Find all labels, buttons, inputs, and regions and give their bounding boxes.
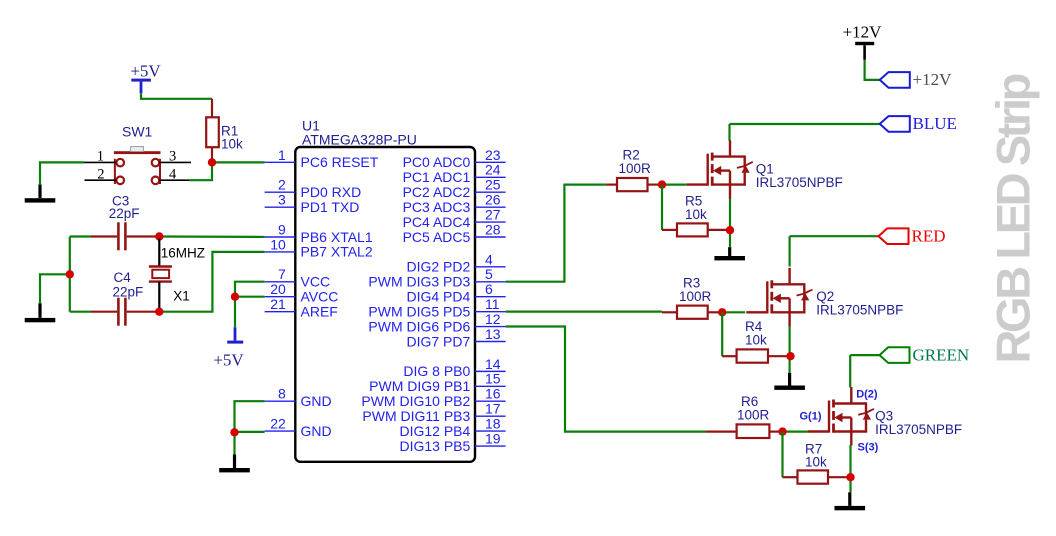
resistor R5 left lead [662, 229, 677, 231]
wire GREEN net [850, 354, 879, 356]
svg-text:GND: GND [301, 423, 332, 439]
svg-text:10k: 10k [805, 455, 827, 470]
IC U1 pin 11 (PWM DIG5 PD5) [368, 296, 505, 319]
IC U1 pin 9 (PB6 XTAL1) [265, 221, 373, 244]
junction node Q2 source/R4 [786, 352, 794, 360]
resistor R1 body [206, 117, 219, 147]
svg-text:4: 4 [485, 251, 493, 267]
svg-text:16MHZ: 16MHZ [161, 245, 205, 260]
junction node Q1 source/R5 [726, 226, 734, 234]
junction node VCC/AVCC [231, 293, 239, 301]
IC U1 pin 14 (DIG 8 PB0) [403, 356, 505, 379]
IC U1 pin 1 (PC6 RESET) [265, 147, 379, 170]
svg-text:RGB LED Strip: RGB LED Strip [987, 74, 1040, 363]
capacitor C3 left lead [91, 235, 117, 237]
IC U1 pin 20 (AVCC) [265, 281, 339, 304]
IC U1 pin 5 (PWM DIG3 PD3) [368, 266, 505, 289]
power symbol +5V (below VCC) [213, 327, 244, 369]
net flag GREEN [880, 347, 910, 363]
svg-text:24: 24 [485, 162, 501, 178]
svg-text:D(2): D(2) [856, 388, 878, 400]
ground (switch) [25, 185, 56, 203]
svg-text:6: 6 [485, 281, 493, 297]
svg-text:PC3 ADC3: PC3 ADC3 [403, 199, 471, 215]
svg-text:2: 2 [278, 177, 286, 193]
junction node R1/SW1/pin1 [208, 158, 216, 166]
capacitor C4 right lead [127, 311, 160, 313]
wire C4 junction to IC pin 10 [159, 252, 264, 312]
svg-text:PWM DIG6 PD6: PWM DIG6 PD6 [368, 318, 470, 334]
svg-text:RED: RED [912, 226, 946, 245]
wire Q1 source down [729, 199, 731, 248]
crystal X1 top lead [158, 239, 160, 267]
wire R4 rail [721, 312, 723, 356]
svg-text:DIG7 PD7: DIG7 PD7 [406, 333, 470, 349]
IC U1 pin 18 (DIG12 PB4) [399, 415, 505, 438]
IC U1 pin 6 (DIG4 PD4) [406, 281, 505, 304]
svg-text:23: 23 [485, 147, 501, 163]
svg-text:DIG12 PB4: DIG12 PB4 [399, 423, 470, 439]
wire R7 rail [781, 432, 783, 478]
capacitor C4 left lead [91, 311, 117, 313]
IC U1 pin 4 (DIG2 PD2) [406, 251, 505, 274]
wire R3 junction to Q2 gate [722, 311, 745, 313]
wire Q2 drain up [788, 236, 790, 266]
svg-text:27: 27 [485, 206, 501, 222]
IC U1 pin 25 (PC2 ADC2) [403, 177, 506, 200]
resistor R2 body [617, 178, 648, 191]
svg-text:DIG13 PB5: DIG13 PB5 [399, 438, 470, 454]
wire left to C4 [70, 311, 91, 313]
svg-text:+12V: +12V [913, 70, 953, 89]
wire Q3 drain up [849, 355, 851, 387]
junction node XTAL2 [155, 308, 163, 316]
ground (crystal) [25, 303, 56, 322]
svg-text:18: 18 [485, 415, 501, 431]
svg-text:IRL3705NPBF: IRL3705NPBF [875, 422, 962, 437]
resistor R7 body [798, 470, 829, 483]
svg-text:PWM DIG9 PB1: PWM DIG9 PB1 [369, 378, 470, 394]
transistor Q1 IRL3705NPBF [687, 140, 753, 199]
wire BLUE net [730, 123, 880, 125]
wire Q1 drain up [728, 124, 730, 141]
IC U1 pin 10 (PB7 XTAL2) [265, 236, 373, 259]
svg-text:GND: GND [301, 393, 332, 409]
svg-text:PC1 ADC1: PC1 ADC1 [403, 169, 471, 185]
switch SW1 body [114, 147, 161, 185]
svg-text:+5V: +5V [130, 62, 161, 81]
transistor Q3 IRL3705NPBF [808, 387, 874, 446]
svg-text:PC0 ADC0: PC0 ADC0 [403, 154, 471, 170]
svg-text:22pF: 22pF [113, 285, 144, 300]
svg-text:IRL3705NPBF: IRL3705NPBF [756, 175, 843, 190]
svg-text:PB7 XTAL2: PB7 XTAL2 [301, 244, 373, 260]
IC U1 pin 13 (DIG7 PD7) [406, 326, 505, 349]
wire IC pin 7 VCC [235, 282, 265, 297]
svg-text:+12V: +12V [843, 22, 883, 41]
svg-text:11: 11 [485, 296, 500, 312]
IC U1 pin 21 (AREF) [265, 296, 338, 319]
power symbol +12V [843, 22, 883, 59]
resistor R7 right lead [828, 476, 851, 478]
wire R5 rail [661, 185, 663, 230]
IC U1 body [295, 147, 475, 462]
power symbol +5V (top left) [130, 62, 161, 94]
svg-text:10k: 10k [221, 137, 243, 152]
IC U1 pin 2 (PD0 RXD) [265, 177, 362, 200]
svg-text:G(1): G(1) [800, 411, 822, 423]
svg-text:PD1 TXD: PD1 TXD [301, 199, 360, 215]
svg-text:22pF: 22pF [109, 206, 140, 221]
svg-text:IRL3705NPBF: IRL3705NPBF [816, 303, 903, 318]
net flag +12V [880, 72, 910, 88]
wire IC pin 22 GND [235, 431, 265, 433]
svg-text:26: 26 [485, 192, 501, 208]
resistor R2 right lead [648, 184, 663, 186]
crystal X1 bottom lead [158, 282, 160, 312]
svg-text:C4: C4 [114, 270, 132, 285]
wire +12V to flag [865, 60, 880, 80]
IC U1 pin 24 (PC1 ADC1) [403, 162, 506, 185]
ground (Q2) [774, 373, 805, 390]
IC U1 pin 16 (PWM DIG10 PB2) [361, 386, 505, 409]
svg-text:21: 21 [270, 296, 286, 312]
IC U1 pin 8 (GND) [265, 386, 332, 409]
svg-text:AVCC: AVCC [301, 289, 339, 305]
svg-text:DIG2 PD2: DIG2 PD2 [406, 259, 470, 275]
junction node Q1 gate [658, 180, 666, 188]
IC U1 pin 28 (PC5 ADC5) [403, 221, 506, 244]
wire R6 junction to Q3 gate [783, 431, 809, 433]
svg-text:3: 3 [278, 192, 286, 208]
svg-text:X1: X1 [173, 289, 190, 304]
resistor R2 left lead [606, 184, 617, 186]
svg-text:PC2 ADC2: PC2 ADC2 [403, 184, 471, 200]
wire IC pin 8 GND [235, 401, 265, 432]
resistor R3 right lead [708, 311, 723, 313]
svg-text:7: 7 [278, 266, 286, 282]
svg-text:13: 13 [485, 326, 501, 342]
wire IC pin 5 to R2 [506, 185, 607, 282]
wire +5V rail down [234, 297, 236, 328]
svg-text:PWM DIG5 PD5: PWM DIG5 PD5 [368, 303, 470, 319]
IC U1 pin 26 (PC3 ADC3) [403, 192, 506, 215]
svg-text:16: 16 [485, 386, 501, 402]
IC U1 pin 17 (PWM DIG11 PB3) [362, 401, 505, 424]
svg-text:PWM DIG3 PD3: PWM DIG3 PD3 [368, 274, 470, 290]
svg-text:10k: 10k [745, 333, 767, 348]
svg-text:20: 20 [270, 281, 286, 297]
svg-text:28: 28 [485, 221, 501, 237]
svg-text:+5V: +5V [213, 351, 244, 370]
svg-text:PC4 ADC4: PC4 ADC4 [403, 214, 471, 230]
svg-text:PC5 ADC5: PC5 ADC5 [403, 229, 471, 245]
switch SW1 pin 4 lead [159, 179, 189, 181]
capacitor C3 right lead [127, 235, 160, 237]
resistor R1 bottom lead [211, 147, 213, 162]
svg-text:25: 25 [485, 177, 501, 193]
svg-text:BLUE: BLUE [913, 114, 957, 133]
svg-text:DIG 8 PB0: DIG 8 PB0 [403, 363, 470, 379]
junction node Q3 source/R7 [846, 473, 854, 481]
resistor R3 left lead [662, 311, 677, 313]
wire rail to ground stub [40, 274, 70, 303]
junction node crystal rail [66, 270, 74, 278]
svg-text:GREEN: GREEN [913, 345, 970, 364]
IC U1 pin 27 (PC4 ADC4) [403, 206, 506, 229]
svg-text:VCC: VCC [301, 274, 331, 290]
wire IC pin 20 AVCC [235, 296, 265, 298]
junction node Q2 gate [718, 308, 726, 316]
capacitor C3 plates [118, 222, 125, 250]
ground (Q1) [714, 247, 745, 260]
ground (Q3) [835, 492, 866, 510]
IC U1 pin 3 (PD1 TXD) [265, 192, 360, 215]
resistor R3 body [677, 306, 708, 319]
svg-text:DIG4 PD4: DIG4 PD4 [406, 289, 470, 305]
svg-text:100R: 100R [619, 161, 652, 176]
svg-text:1: 1 [278, 147, 286, 163]
wire left to C3 [70, 235, 91, 237]
svg-text:PC6 RESET: PC6 RESET [301, 154, 379, 170]
switch SW1 pin 3 lead [159, 161, 191, 163]
switch SW1 pin 2 lead [85, 179, 117, 181]
resistor R1 top lead [211, 99, 213, 118]
svg-text:100R: 100R [737, 408, 770, 423]
svg-text:AREF: AREF [301, 303, 338, 319]
resistor R4 left lead [722, 355, 736, 357]
svg-text:8: 8 [278, 386, 286, 402]
resistor R5 body [677, 223, 708, 236]
svg-text:100R: 100R [679, 289, 712, 304]
svg-text:22: 22 [270, 415, 286, 431]
svg-text:10: 10 [270, 236, 286, 252]
wire IC pin 11 to R3 [506, 311, 662, 313]
net flag BLUE [880, 116, 910, 132]
IC U1 pin 22 (GND) [265, 415, 332, 438]
switch SW1 pin 1 lead [85, 161, 117, 163]
svg-text:15: 15 [485, 371, 501, 387]
transistor Q2 IRL3705NPBF [746, 268, 812, 327]
wire R1 junction to SW1 pin4 [189, 162, 212, 180]
wire R2 junction to Q1 gate [662, 184, 687, 186]
svg-text:17: 17 [485, 401, 501, 417]
IC U1 pin 12 (PWM DIG6 PD6) [368, 311, 505, 334]
ground (IC) [219, 455, 250, 473]
resistor R6 body [737, 424, 770, 438]
svg-text:5: 5 [485, 266, 493, 282]
wire +5V to R1 [141, 93, 212, 99]
junction node Q3 gate [778, 427, 786, 435]
svg-text:PWM DIG11 PB3: PWM DIG11 PB3 [362, 408, 470, 424]
wire R1 junction to IC pin 1 [212, 161, 265, 163]
resistor R6 right lead [769, 431, 782, 433]
wire IC pin 12 to R6 [506, 327, 706, 432]
svg-text:PB6 XTAL1: PB6 XTAL1 [301, 229, 373, 245]
wire RED net [790, 235, 879, 237]
svg-text:ATMEGA328P-PU: ATMEGA328P-PU [302, 131, 417, 147]
svg-text:9: 9 [278, 221, 286, 237]
resistor R7 left lead [783, 476, 798, 478]
svg-text:12: 12 [485, 311, 501, 327]
svg-text:PD0 RXD: PD0 RXD [301, 184, 362, 200]
IC U1 pin 7 (VCC) [265, 266, 330, 289]
wire crystal left rail [69, 237, 71, 312]
wire Q3 source down [849, 445, 851, 492]
svg-text:19: 19 [485, 430, 501, 446]
IC U1 pin 23 (PC0 ADC0) [403, 147, 506, 170]
svg-text:14: 14 [485, 356, 501, 372]
IC U1 pin 15 (PWM DIG9 PB1) [369, 371, 505, 394]
wire GND rail down [233, 432, 235, 455]
junction node XTAL1 [155, 232, 163, 240]
svg-text:S(3): S(3) [858, 442, 879, 454]
svg-text:PWM DIG10 PB2: PWM DIG10 PB2 [361, 393, 470, 409]
svg-text:SW1: SW1 [122, 123, 153, 139]
crystal X1 body [149, 267, 172, 282]
capacitor C4 plates [118, 298, 125, 326]
resistor R6 left lead [706, 431, 737, 433]
resistor R4 body [737, 349, 768, 362]
wire SW1 pin1 to ground rail [40, 162, 85, 184]
resistor R4 right lead [768, 355, 791, 357]
net flag RED [879, 228, 909, 244]
resistor R5 right lead [708, 229, 730, 231]
wire C3 junction to IC pin 9 [159, 235, 264, 238]
svg-text:10k: 10k [685, 207, 707, 222]
IC U1 pin 19 (DIG13 PB5) [399, 430, 505, 453]
junction node GND pins [230, 428, 238, 436]
wire Q2 source down [788, 326, 790, 373]
